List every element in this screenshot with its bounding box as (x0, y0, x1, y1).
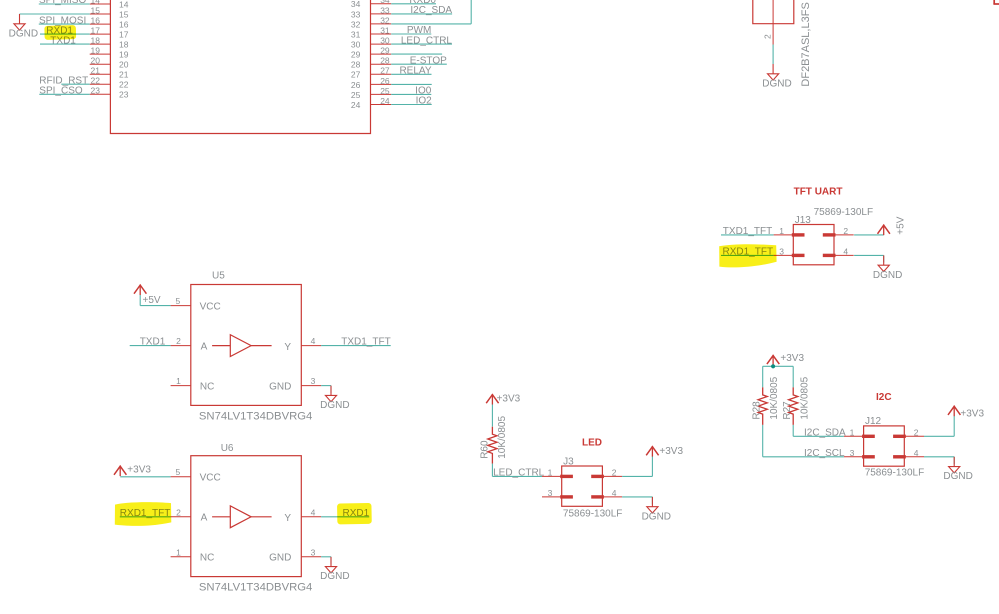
svg-text:17: 17 (91, 25, 101, 35)
IC U1 left pin 14 (90, 0, 129, 9)
svg-text:34: 34 (380, 0, 390, 5)
diode D1 body DF2B7ASL (partial, clipped at top) (753, 0, 794, 24)
svg-text:2: 2 (762, 34, 772, 39)
svg-text:30: 30 (351, 40, 361, 50)
ground DGND (U6) (320, 557, 349, 582)
svg-text:5: 5 (175, 296, 180, 306)
svg-text:R27: R27 (782, 401, 793, 420)
svg-text:TFT UART: TFT UART (794, 187, 843, 198)
wire IO2 (391, 96, 432, 107)
wire GND to DGND (U5) (321, 386, 331, 394)
IC U1 left pin 17 (90, 25, 129, 39)
svg-text:+5V: +5V (143, 295, 161, 306)
wire J3 pin 4 to DGND (622, 497, 652, 505)
svg-text:IO2: IO2 (416, 96, 433, 107)
svg-text:29: 29 (380, 46, 390, 56)
IC U1 right pin 28 (351, 56, 391, 70)
connector J12 pin 3 pad (844, 448, 875, 458)
svg-text:I2C: I2C (876, 392, 892, 403)
svg-text:VCC: VCC (200, 301, 221, 312)
IC U1 right pin 24 (351, 96, 391, 110)
svg-text:33: 33 (380, 5, 390, 15)
svg-text:1: 1 (850, 427, 855, 437)
wire +3V3 to R60 (491, 405, 493, 427)
IC U1 right pin 29 (351, 46, 391, 60)
svg-text:75869-130LF: 75869-130LF (814, 207, 874, 218)
svg-text:Y: Y (284, 342, 291, 353)
svg-text:U6: U6 (221, 443, 234, 454)
connector J3 pin 2 pad (591, 468, 622, 478)
IC U1 left pin 23 (90, 86, 129, 100)
wire I2C_SCL (R28 to J12 pin 3) (763, 425, 845, 459)
wire RXD1_TFT (U6 input) (120, 508, 171, 519)
connector J13 body 75869-130LF (793, 215, 834, 265)
partial red element (clipped top-right corner) (993, 0, 999, 4)
pin 2 A U5 (171, 336, 208, 352)
svg-text:J3: J3 (563, 456, 574, 467)
svg-text:TXD1: TXD1 (140, 337, 166, 348)
svg-text:31: 31 (380, 25, 390, 35)
svg-text:20: 20 (119, 60, 129, 70)
wire RXD1_TFT (J13 pin 3) (721, 247, 774, 258)
svg-text:1: 1 (548, 468, 553, 478)
connector J13 pin 2 pad (823, 226, 854, 236)
svg-text:1: 1 (176, 547, 181, 557)
svg-text:2: 2 (612, 468, 617, 478)
ground DGND (U5) (320, 386, 349, 411)
svg-text:DGND: DGND (943, 471, 972, 482)
svg-text:LED: LED (582, 438, 602, 449)
svg-text:+3V3: +3V3 (659, 446, 683, 457)
svg-text:U5: U5 (212, 270, 225, 281)
connector J12 pin 1 pad (844, 427, 875, 437)
svg-text:28: 28 (380, 56, 390, 66)
svg-text:GND: GND (269, 382, 291, 393)
pin 5 VCC U6 (171, 467, 221, 483)
pin 3 GND U5 (269, 376, 321, 392)
svg-text:2: 2 (176, 507, 181, 517)
svg-text:1: 1 (176, 376, 181, 386)
IC U1 left pin 19 (90, 45, 129, 59)
buffer gate symbol U6 (212, 506, 272, 528)
svg-text:19: 19 (119, 50, 129, 60)
pin 4 Y U5 (284, 336, 321, 353)
svg-text:23: 23 (119, 90, 129, 100)
svg-text:DGND: DGND (320, 400, 349, 411)
svg-text:A: A (201, 513, 208, 524)
svg-text:4: 4 (843, 247, 848, 257)
section label LED (582, 438, 602, 449)
resistor R28 10K/0805 (752, 376, 780, 425)
svg-text:RELAY: RELAY (399, 66, 431, 77)
svg-text:26: 26 (380, 76, 390, 86)
svg-text:32: 32 (351, 19, 361, 29)
wire diode to ground (772, 45, 774, 65)
pin 5 VCC U5 (171, 296, 221, 312)
svg-text:3: 3 (850, 448, 855, 458)
IC U1 left pin 18 (90, 35, 129, 49)
svg-text:4: 4 (311, 336, 316, 346)
power +5V (U5) (134, 285, 171, 306)
svg-text:25: 25 (351, 90, 361, 100)
svg-text:20: 20 (91, 56, 101, 66)
junction (I2C +3V3) (771, 364, 775, 368)
svg-text:31: 31 (351, 29, 361, 39)
section label TFT UART (794, 187, 843, 198)
label SN74LV1T34DBVRG4 (U5) (199, 411, 312, 423)
wire J13 pin 2 to +5V (854, 234, 884, 236)
wire IO0 (391, 86, 432, 97)
svg-text:3: 3 (311, 376, 316, 386)
wire TXD1_TFT (U5 output) (321, 337, 391, 348)
pin 1 NC U6 (171, 547, 215, 563)
svg-text:24: 24 (351, 100, 361, 110)
wire pin 32 net (riser to top) (391, 0, 471, 24)
svg-text:26: 26 (351, 80, 361, 90)
svg-text:17: 17 (119, 30, 129, 40)
wire J12 pin 2 to +3V3 (924, 416, 954, 436)
svg-text:J12: J12 (865, 416, 882, 427)
wire SPI_MISO (pin 14) (39, 0, 90, 6)
svg-text:SPI_CSO: SPI_CSO (39, 86, 83, 97)
resistor R60 10K/0805 (479, 416, 508, 464)
svg-text:1: 1 (779, 226, 784, 236)
IC U1 right pin 26 (351, 76, 391, 90)
svg-text:75869-130LF: 75869-130LF (563, 508, 623, 519)
wire LED_CTRL (391, 35, 452, 46)
svg-text:5: 5 (175, 467, 180, 477)
label DF2B7ASL,L3FS (800, 2, 812, 86)
svg-text:DGND: DGND (320, 571, 349, 582)
IC U1 right pin 34 (351, 0, 391, 9)
pin 3 GND U6 (269, 547, 321, 563)
IC U1 right pin 25 (351, 86, 391, 100)
svg-text:J13: J13 (795, 215, 812, 226)
svg-text:I2C_SCL: I2C_SCL (804, 448, 845, 459)
connector J13 pin 1 pad (774, 226, 805, 236)
pin 4 Y U6 (284, 507, 321, 524)
power +3V3 (R60 top) (486, 394, 520, 405)
ground DGND (diode) (762, 64, 791, 89)
power +3V3 (I2C pullups) (767, 353, 805, 366)
buffer gate symbol U5 (212, 335, 272, 357)
wire J12 pin 4 to DGND (924, 457, 954, 465)
wire TXD1 (U5 input) (130, 337, 171, 348)
resistor R27 10K/0805 (782, 376, 810, 425)
IC U1 right pin 33 (351, 5, 391, 19)
connector J3 body 75869-130LF (562, 456, 603, 506)
svg-text:16: 16 (119, 20, 129, 30)
pin 2 A U6 (171, 507, 208, 523)
wire I2C_SDA (R27 to J12 pin 1) (793, 425, 846, 439)
IC U1 left pin 16 (90, 15, 129, 29)
label 75869-130LF (J13) (814, 207, 874, 218)
svg-text:3: 3 (548, 488, 553, 498)
svg-text:21: 21 (91, 66, 101, 76)
svg-text:21: 21 (119, 70, 129, 80)
label 75869-130LF (J3) (563, 508, 623, 519)
IC U1 right pin 27 (351, 66, 391, 80)
svg-text:22: 22 (119, 80, 129, 90)
svg-text:2: 2 (176, 336, 181, 346)
IC U1 right pin 32 (351, 15, 391, 29)
diode D1 pin 2 lead (762, 24, 773, 45)
svg-text:14: 14 (119, 0, 129, 9)
connector J12 body 75869-130LF (864, 416, 905, 466)
label SN74LV1T34DBVRG4 (U6) (199, 582, 312, 594)
wire RXD0 (391, 0, 436, 6)
connector J3 pin 4 pad (591, 488, 622, 498)
IC U1 left pin 15 (90, 5, 129, 19)
IC U1 left pin 20 (90, 56, 129, 70)
svg-text:A: A (201, 342, 208, 353)
wire PWM (391, 25, 431, 36)
svg-text:15: 15 (91, 5, 101, 15)
svg-text:GND: GND (269, 553, 291, 564)
svg-text:15: 15 (119, 9, 129, 19)
svg-text:16: 16 (91, 15, 101, 25)
connector J3 pin 3 pad (542, 488, 573, 498)
svg-text:TXD1_TFT: TXD1_TFT (341, 337, 390, 348)
svg-text:+3V3: +3V3 (497, 394, 521, 405)
svg-text:R60: R60 (479, 440, 490, 459)
svg-text:34: 34 (351, 0, 361, 9)
ground DGND (top-left) (9, 14, 38, 39)
connector J3 pin 1 pad (542, 468, 573, 478)
svg-text:4: 4 (612, 488, 617, 498)
highlight RXD1_TFT (J13 pin 3) (719, 244, 776, 267)
wire RXD1 (U6 output) (321, 508, 370, 519)
wire +3V3 rail to R28/R27 (763, 366, 794, 387)
svg-text:3: 3 (311, 547, 316, 557)
wire TXD1 (pin 18) (40, 35, 90, 46)
connector J12 pin 2 pad (893, 427, 924, 437)
wire net pin 26 (391, 83, 432, 85)
power +3V3 (J12) (948, 406, 984, 420)
svg-text:DGND: DGND (642, 511, 671, 522)
highlight RXD1 (U6 output) (337, 503, 372, 524)
svg-text:SN74LV1T34DBVRG4: SN74LV1T34DBVRG4 (199, 582, 312, 594)
svg-text:32: 32 (380, 15, 390, 25)
label 75869-130LF (J12) (865, 468, 925, 479)
svg-text:75869-130LF: 75869-130LF (865, 468, 925, 479)
svg-text:+5V: +5V (895, 216, 906, 234)
wire J3 pin 2 to +3V3 (622, 456, 652, 476)
ground DGND (J13) (873, 255, 902, 280)
svg-text:33: 33 (351, 9, 361, 19)
ground DGND (J12) (943, 457, 972, 482)
wire SPI_MOSI (pin 16) (39, 15, 90, 26)
wire GND to DGND (U6) (321, 557, 331, 565)
svg-text:4: 4 (311, 507, 316, 517)
ground DGND (J3) (642, 497, 671, 522)
IC U6 body (191, 443, 301, 577)
IC U1 right pin 30 (351, 36, 391, 50)
pin 1 NC U5 (171, 376, 215, 392)
svg-text:29: 29 (351, 50, 361, 60)
svg-text:Y: Y (284, 513, 291, 524)
svg-text:I2C_SDA: I2C_SDA (804, 428, 846, 439)
power +3V3 (J3) (646, 446, 683, 457)
IC U1 left pin 21 (90, 66, 129, 80)
svg-text:DGND: DGND (873, 270, 902, 281)
svg-text:25: 25 (380, 86, 390, 96)
power +5V (J13) (878, 216, 907, 235)
wire TXD1_TFT (J13 pin 1) (721, 226, 774, 237)
svg-text:R28: R28 (752, 401, 763, 420)
svg-text:10K/0805: 10K/0805 (800, 376, 811, 419)
svg-text:27: 27 (351, 70, 361, 80)
svg-text:SPI_MISO: SPI_MISO (39, 0, 86, 6)
wire RXD1 (pin 17) (40, 25, 90, 36)
wire LED_CTRL (R60 to J3 pin 1) (492, 464, 544, 479)
svg-text:+3V3: +3V3 (780, 353, 804, 364)
svg-text:27: 27 (380, 66, 390, 76)
svg-text:LED_CTRL: LED_CTRL (401, 35, 453, 46)
svg-text:NC: NC (200, 382, 214, 393)
connector J12 pin 4 pad (893, 448, 924, 458)
highlight RXD1_TFT (U6 input) (115, 502, 172, 526)
connector J13 pin 4 pad (823, 247, 854, 257)
wire SPI_CSO (pin 23) (39, 86, 89, 97)
wire RFID_RST (pin 22) (39, 75, 89, 86)
svg-text:18: 18 (119, 40, 129, 50)
svg-text:DF2B7ASL,L3FS: DF2B7ASL,L3FS (800, 2, 812, 86)
svg-text:DGND: DGND (9, 28, 38, 39)
IC U1 right pin 31 (351, 25, 391, 39)
svg-text:DGND: DGND (762, 78, 791, 89)
wire RELAY (391, 66, 432, 77)
IC U1 left pin 22 (90, 76, 129, 90)
svg-text:19: 19 (91, 45, 101, 55)
svg-text:3: 3 (779, 247, 784, 257)
svg-text:2: 2 (914, 427, 919, 437)
IC U5 body (191, 270, 301, 405)
svg-text:23: 23 (91, 86, 101, 96)
power +3V3 (U6) (114, 464, 171, 477)
svg-text:10K/0805: 10K/0805 (769, 376, 780, 419)
section label I2C (876, 392, 892, 403)
svg-text:+3V3: +3V3 (960, 408, 984, 419)
svg-text:10K/0805: 10K/0805 (497, 416, 508, 459)
svg-text:TXD1_TFT: TXD1_TFT (723, 226, 772, 237)
wire I2C_SDA (391, 5, 452, 16)
highlight RXD1 (IC U1 pin 17) (44, 25, 76, 40)
svg-text:2: 2 (843, 226, 848, 236)
connector J13 pin 3 pad (774, 247, 805, 257)
svg-text:4: 4 (914, 448, 919, 458)
IC U1 body (partial, clipped at top) (110, 0, 370, 134)
svg-text:22: 22 (91, 76, 101, 86)
svg-text:I2C_SDA: I2C_SDA (410, 5, 452, 16)
svg-text:+3V3: +3V3 (127, 464, 151, 475)
svg-text:LED_CTRL: LED_CTRL (493, 467, 545, 478)
svg-text:28: 28 (351, 60, 361, 70)
wire E-STOP (391, 55, 447, 66)
svg-text:SN74LV1T34DBVRG4: SN74LV1T34DBVRG4 (199, 411, 312, 423)
wire J13 pin 4 to DGND (854, 255, 884, 262)
svg-text:NC: NC (200, 553, 214, 564)
wire pin 15 to DGND (20, 13, 90, 15)
svg-text:VCC: VCC (200, 473, 221, 484)
svg-text:24: 24 (380, 96, 390, 106)
wire net pin 29 (391, 53, 442, 55)
svg-text:18: 18 (91, 35, 101, 45)
svg-text:30: 30 (380, 36, 390, 46)
